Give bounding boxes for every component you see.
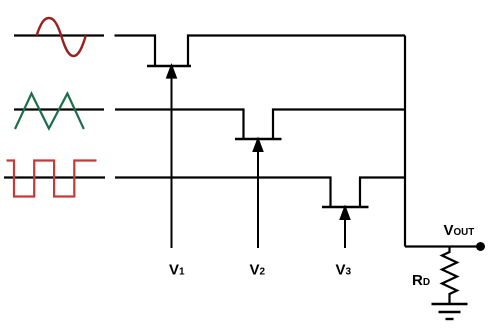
svg-text:V2: V2 — [250, 262, 266, 279]
wire output bus — [404, 36, 406, 247]
ground — [432, 303, 468, 305]
triangle source baseline — [14, 108, 104, 110]
transistor Q3 channel bar — [322, 206, 369, 208]
sine waveform — [37, 18, 86, 56]
svg-text:VOUT: VOUT — [444, 222, 475, 239]
wire square input to Q3 — [115, 178, 331, 207]
output node dot — [476, 242, 485, 251]
wire Q3 drain to bus — [360, 178, 405, 208]
svg-text:RD: RD — [412, 272, 430, 289]
wire Q1 drain to top rail — [188, 36, 405, 67]
transistor Q2 channel bar — [235, 138, 282, 140]
transistor Q1 channel bar — [147, 65, 191, 67]
svg-text:V3: V3 — [336, 262, 352, 279]
gate control arrow V3 — [344, 217, 346, 248]
wire triangle input to Q2 — [115, 110, 244, 139]
svg-text:V1: V1 — [169, 262, 185, 279]
wire sine input to Q1 — [115, 36, 156, 66]
gate control arrow V2 — [257, 149, 259, 248]
sine source baseline — [14, 34, 104, 36]
wire Q2 drain to bus — [273, 110, 405, 140]
gate control arrow V1 — [171, 76, 173, 248]
resistor RD — [442, 247, 457, 305]
triangle waveform — [15, 94, 84, 130]
wire to output node — [405, 245, 478, 247]
square source baseline — [4, 176, 105, 178]
square waveform — [7, 161, 97, 197]
